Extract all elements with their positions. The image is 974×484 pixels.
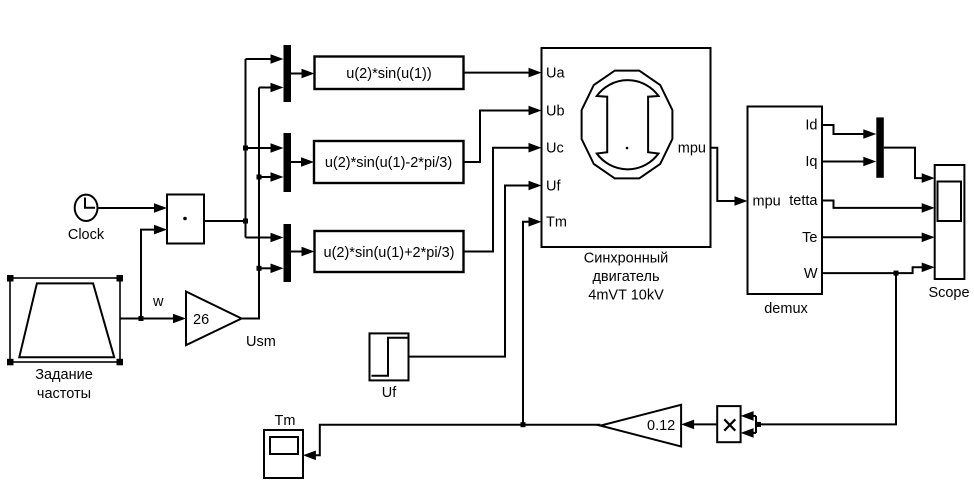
svg-text:Scope: Scope <box>928 285 969 301</box>
svg-text:mpu: mpu <box>678 141 706 157</box>
svg-text:Ub: Ub <box>546 104 565 120</box>
svg-text:Задание: Задание <box>35 367 93 383</box>
svg-text:mpu: mpu <box>753 194 781 210</box>
svg-text:Usm: Usm <box>246 334 276 350</box>
svg-text:u(2)*sin(u(1)): u(2)*sin(u(1)) <box>346 66 431 82</box>
svg-text:Clock: Clock <box>68 227 105 243</box>
svg-text:Uf: Uf <box>546 179 561 195</box>
svg-text:двигатель: двигатель <box>592 269 659 285</box>
svg-text:4mVT 10kV: 4mVT 10kV <box>588 288 664 304</box>
svg-text:0.12: 0.12 <box>647 418 675 434</box>
svg-text:u(2)*sin(u(1)+2*pi/3): u(2)*sin(u(1)+2*pi/3) <box>324 245 455 261</box>
svg-text:Tm: Tm <box>546 215 567 231</box>
svg-text:tetta: tetta <box>789 193 818 209</box>
svg-text:Uc: Uc <box>546 141 564 157</box>
svg-text:Ua: Ua <box>546 66 565 82</box>
svg-text:Uf: Uf <box>382 385 397 401</box>
svg-text:Id: Id <box>805 118 817 134</box>
svg-text:demux: demux <box>764 301 808 317</box>
svg-text:частоты: частоты <box>37 386 91 402</box>
svg-text:Iq: Iq <box>805 154 817 170</box>
svg-text:w: w <box>152 294 164 310</box>
svg-text:Te: Te <box>802 230 817 246</box>
svg-text:Синхронный: Синхронный <box>584 251 669 267</box>
svg-text:Tm: Tm <box>275 413 296 429</box>
svg-text:W: W <box>804 266 818 282</box>
svg-text:26: 26 <box>193 312 209 328</box>
svg-text:u(2)*sin(u(1)-2*pi/3): u(2)*sin(u(1)-2*pi/3) <box>325 155 452 171</box>
